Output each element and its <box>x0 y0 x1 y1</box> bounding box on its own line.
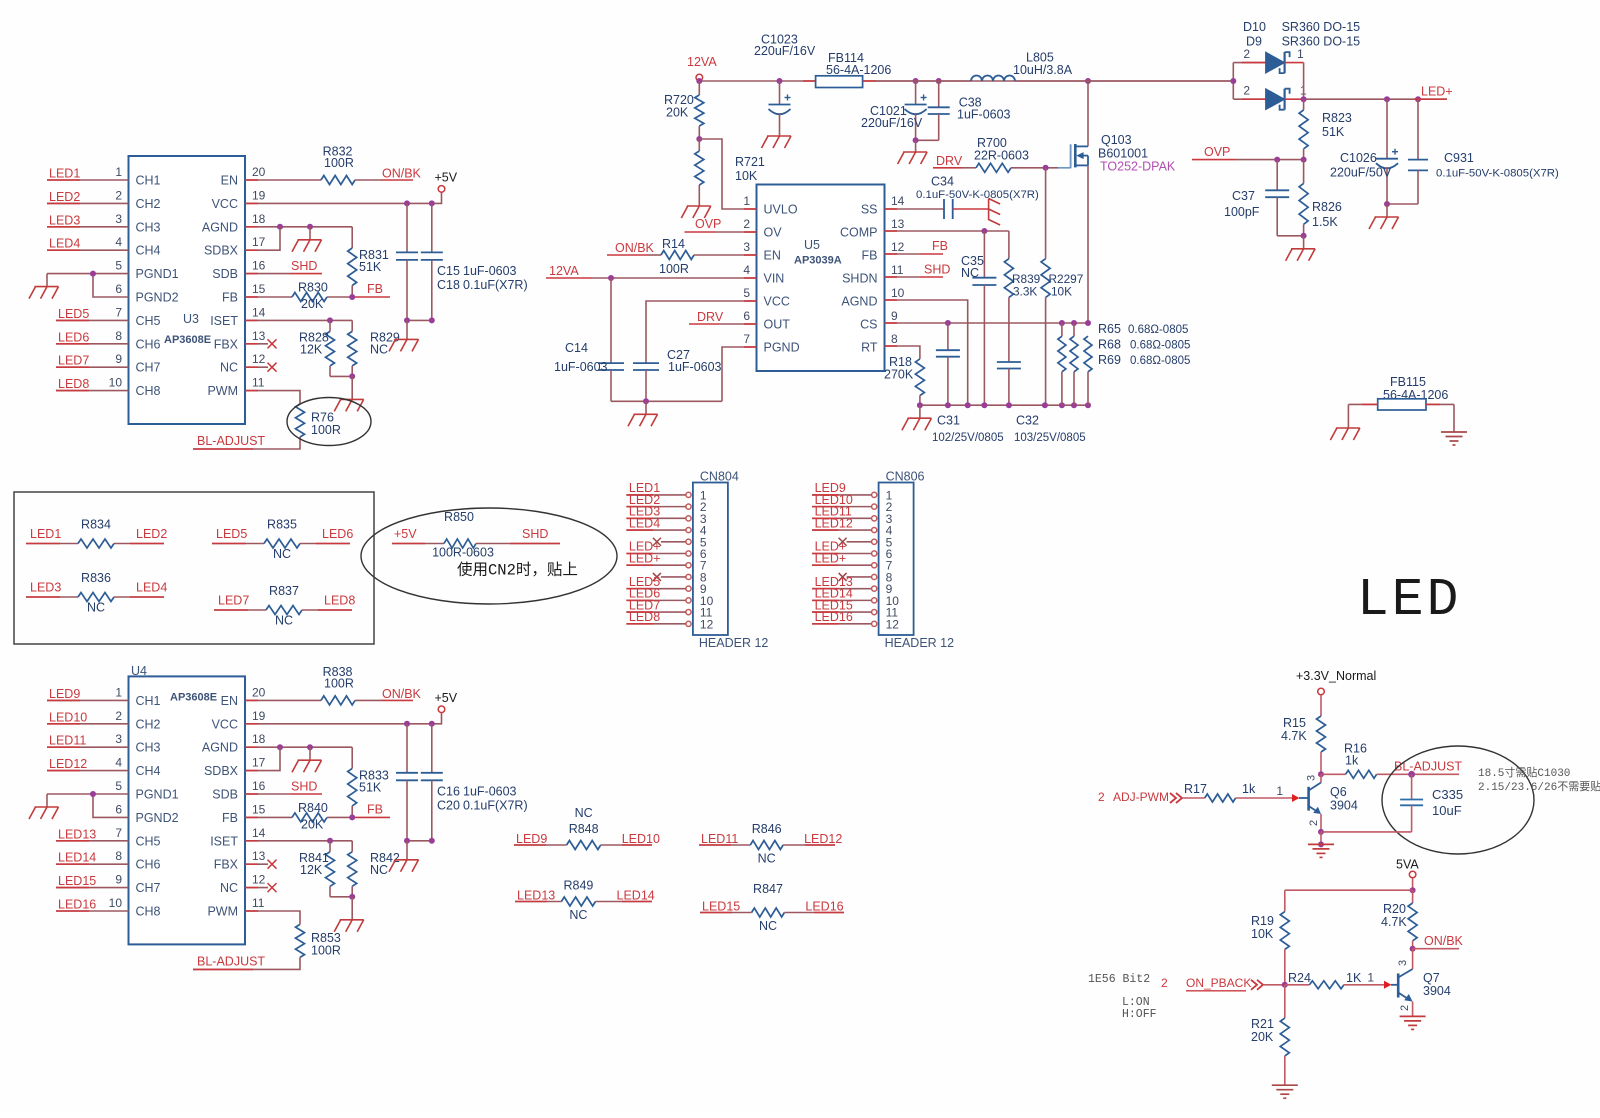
svg-text:R848: R848 <box>569 822 599 836</box>
ground under R721 <box>687 205 711 207</box>
svg-text:FBX: FBX <box>214 858 239 872</box>
svg-text:NC: NC <box>370 863 388 877</box>
wire U5 RT <box>885 346 920 359</box>
svg-text:Q7: Q7 <box>1423 971 1440 985</box>
svg-text:CN806: CN806 <box>886 470 925 484</box>
svg-text:LED14: LED14 <box>58 851 96 865</box>
svg-text:1: 1 <box>1367 971 1374 985</box>
resistor R849 LED13-LED14 NC <box>515 901 561 903</box>
svg-text:2: 2 <box>1399 1005 1411 1011</box>
wire LED12 to U4 CH4 <box>47 770 129 772</box>
svg-text:R823: R823 <box>1322 111 1352 125</box>
svg-text:LED4: LED4 <box>49 237 80 251</box>
resistor R846 LED11-LED12 NC <box>699 844 750 846</box>
svg-text:2: 2 <box>1161 976 1168 990</box>
wire divider to U5 UVLO <box>699 139 756 209</box>
ground under R841 <box>351 897 353 920</box>
CN806 pin 2 <box>872 504 877 509</box>
ground at FB115 left <box>1336 427 1360 429</box>
svg-text:VCC: VCC <box>212 197 238 211</box>
resistor R21 20K <box>1284 985 1286 1018</box>
svg-text:LED5: LED5 <box>216 527 247 541</box>
svg-text:12: 12 <box>700 617 714 631</box>
svg-text:R830: R830 <box>298 281 328 295</box>
CN804 pin 11 <box>686 610 691 615</box>
svg-text:U5: U5 <box>804 238 820 252</box>
capacitor C1021 220uF/16V <box>915 81 917 105</box>
svg-text:2.15/23.6/26不需要贴: 2.15/23.6/26不需要贴 <box>1478 779 1600 794</box>
svg-text:BL-ADJUST: BL-ADJUST <box>197 434 265 448</box>
svg-text:12VA: 12VA <box>687 55 717 69</box>
resistor R847 LED15-LED16 NC <box>700 912 752 914</box>
ground under C1021 <box>903 151 927 153</box>
svg-text:220uF/16V: 220uF/16V <box>861 116 923 130</box>
wire LED1 to U3 CH1 <box>47 179 129 181</box>
svg-text:LED13: LED13 <box>58 827 96 841</box>
svg-text:14: 14 <box>252 826 266 840</box>
svg-text:CH8: CH8 <box>136 905 161 919</box>
U4 FBX no-connect <box>245 863 268 865</box>
svg-text:NC: NC <box>569 908 587 922</box>
svg-text:AGND: AGND <box>202 741 238 755</box>
capacitor C18 <box>431 203 433 252</box>
svg-text:LED11: LED11 <box>701 832 738 846</box>
svg-text:100pF: 100pF <box>1224 205 1260 219</box>
svg-text:13: 13 <box>252 849 266 863</box>
ground under R828 <box>351 376 353 399</box>
svg-text:LED11: LED11 <box>49 734 86 748</box>
capacitor C38 1uF-0603 <box>938 81 940 107</box>
svg-text:CS: CS <box>860 318 877 332</box>
wire ON/BK to R14 <box>648 254 661 256</box>
svg-text:LED7: LED7 <box>58 354 89 368</box>
wire LED16 to U4 CH8 <box>56 910 129 912</box>
resistor R19 10K <box>1284 890 1286 911</box>
svg-text:12: 12 <box>252 352 266 366</box>
svg-text:VCC: VCC <box>764 295 790 309</box>
svg-text:CH6: CH6 <box>136 337 161 351</box>
svg-text:SDB: SDB <box>212 267 238 281</box>
wire C1021/C38 join to ground <box>916 139 939 141</box>
resistor R17 1k <box>1182 797 1205 799</box>
svg-text:R834: R834 <box>81 518 111 532</box>
wire U4 ISET <box>245 840 352 842</box>
svg-text:ON/BK: ON/BK <box>1424 934 1464 948</box>
svg-text:13: 13 <box>252 329 266 343</box>
svg-text:FB: FB <box>367 282 383 296</box>
svg-text:NC: NC <box>87 601 105 615</box>
svg-text:2: 2 <box>1243 84 1250 98</box>
svg-text:R65: R65 <box>1098 322 1121 336</box>
svg-text:LED15: LED15 <box>702 899 740 913</box>
wire U4 VCC to +5V <box>245 713 442 724</box>
resistor R69 0.68ohm <box>1084 336 1092 372</box>
svg-text:ON/BK: ON/BK <box>382 167 422 181</box>
CN804 pin 5 <box>686 539 691 544</box>
CN804 pin 3 <box>686 516 691 521</box>
svg-text:4: 4 <box>115 235 122 249</box>
svg-text:NC: NC <box>273 547 291 561</box>
capacitor C31 102/25V/0805 <box>947 323 949 350</box>
svg-text:R840: R840 <box>298 801 328 815</box>
svg-text:FB: FB <box>367 802 383 816</box>
svg-text:R17: R17 <box>1184 782 1207 796</box>
CN804 pin 10 <box>686 598 691 603</box>
svg-text:18.5寸需贴C1030: 18.5寸需贴C1030 <box>1478 765 1570 780</box>
svg-text:18: 18 <box>252 212 266 226</box>
svg-text:10: 10 <box>109 896 123 910</box>
svg-text:VIN: VIN <box>764 272 785 286</box>
wire R830 20K to FB label <box>327 296 355 298</box>
wire diode cathode bus to LED+ <box>1303 63 1305 100</box>
connector CN804 HEADER 12 <box>693 483 728 636</box>
U3 FBX no-connect <box>245 343 268 345</box>
svg-text:CH7: CH7 <box>136 881 161 895</box>
svg-text:12: 12 <box>252 873 266 887</box>
svg-text:LED8: LED8 <box>629 610 660 624</box>
wire LED15 to U4 CH7 <box>56 887 129 889</box>
resistor R16 1k <box>1321 773 1346 775</box>
net label FB at U5 <box>885 253 921 255</box>
wire U3 SDBX riser <box>245 227 280 250</box>
wire R16 to BL-ADJUST <box>1377 773 1460 775</box>
svg-text:FB: FB <box>222 291 238 305</box>
svg-text:10uH/3.8A: 10uH/3.8A <box>1013 63 1073 77</box>
svg-text:3: 3 <box>115 212 122 226</box>
svg-text:11: 11 <box>891 263 904 277</box>
svg-text:51K: 51K <box>359 780 382 794</box>
wire U5 AGND riser <box>885 300 968 405</box>
svg-text:LED+: LED+ <box>815 551 847 565</box>
resistor R68 0.68ohm <box>1073 323 1075 336</box>
U3 NC pin no-connect <box>245 366 268 368</box>
resistor R830 20K <box>292 293 327 302</box>
svg-text:AP3608E: AP3608E <box>170 692 217 704</box>
capacitor C27 1uF-0603 <box>633 362 659 364</box>
svg-text:6: 6 <box>743 309 750 323</box>
capacitor C1026 220uF/50V <box>1386 99 1388 159</box>
svg-text:LED2: LED2 <box>136 527 167 541</box>
resistor R826 1.5K <box>1303 160 1305 184</box>
wire R17 to Q6 base <box>1236 797 1292 799</box>
svg-text:C20: C20 <box>437 798 460 812</box>
svg-text:1uF-0603: 1uF-0603 <box>668 360 722 374</box>
svg-text:AGND: AGND <box>841 295 877 309</box>
wire U4 SDB to SHD label <box>245 793 290 795</box>
CN806 pin 3 <box>872 516 877 521</box>
svg-text:C1026: C1026 <box>1340 151 1377 165</box>
svg-text:CH6: CH6 <box>136 858 161 872</box>
svg-text:LED2: LED2 <box>49 190 80 204</box>
svg-text:LED16: LED16 <box>815 610 853 624</box>
wire U3 ISET <box>245 319 352 321</box>
connector CN806 HEADER 12 <box>879 483 914 636</box>
wire U5 ground bus <box>920 404 1088 406</box>
ground under R826 <box>1303 236 1305 249</box>
ground under C1026 <box>1386 204 1388 217</box>
svg-text:ON_PBACK: ON_PBACK <box>1186 976 1251 990</box>
svg-text:PGND2: PGND2 <box>136 811 179 825</box>
ground at U4 AGND <box>309 747 311 760</box>
wire 5VA node <box>1412 878 1414 890</box>
svg-text:PGND1: PGND1 <box>136 267 179 281</box>
svg-text:BL-ADJUST: BL-ADJUST <box>197 954 265 968</box>
capacitor C1023 220uF/16V <box>779 81 781 105</box>
svg-text:HEADER 12: HEADER 12 <box>699 636 769 650</box>
svg-text:LED10: LED10 <box>49 710 87 724</box>
ground under C15/C18 <box>395 338 419 340</box>
svg-text:R68: R68 <box>1098 338 1121 352</box>
svg-text:10: 10 <box>891 286 905 300</box>
svg-text:1E56 Bit2: 1E56 Bit2 <box>1088 973 1150 986</box>
highlight ellipse around R850 <box>361 508 617 604</box>
svg-text:CH5: CH5 <box>136 834 161 848</box>
svg-text:2: 2 <box>1243 47 1250 61</box>
svg-text:19: 19 <box>252 188 266 202</box>
svg-text:R721: R721 <box>735 155 765 169</box>
svg-text:2: 2 <box>115 188 122 202</box>
svg-text:FB: FB <box>222 811 238 825</box>
svg-text:7: 7 <box>115 826 122 840</box>
IC U5 AP3039A body <box>757 185 885 372</box>
wire Q103 drain to rail <box>1087 81 1089 146</box>
svg-text:NC: NC <box>220 361 238 375</box>
svg-text:CH5: CH5 <box>136 314 161 328</box>
svg-text:4.7K: 4.7K <box>1281 729 1307 743</box>
resistor R76 100R <box>296 404 305 437</box>
svg-text:15: 15 <box>252 802 266 816</box>
wire LED8 to U3 CH8 <box>56 390 129 392</box>
svg-text:C37: C37 <box>1232 189 1255 203</box>
ground under C16/C20 <box>395 859 419 861</box>
svg-text:LED13: LED13 <box>517 888 555 902</box>
wire Q6 collector riser <box>1320 774 1322 782</box>
svg-text:ISET: ISET <box>210 834 238 848</box>
svg-text:103/25V/0805: 103/25V/0805 <box>1014 432 1086 444</box>
svg-text:SHD: SHD <box>291 780 317 794</box>
wire U4 PWM <box>245 911 300 924</box>
svg-text:11: 11 <box>252 896 265 910</box>
svg-text:EN: EN <box>221 694 238 708</box>
svg-text:1uF-0603: 1uF-0603 <box>463 264 517 278</box>
svg-text:0.68Ω-0805: 0.68Ω-0805 <box>1130 355 1190 367</box>
svg-text:1: 1 <box>115 165 122 179</box>
svg-text:SHD: SHD <box>291 259 317 273</box>
svg-text:20K: 20K <box>301 297 324 311</box>
resistor R829 NC <box>351 320 353 331</box>
svg-text:3: 3 <box>1397 960 1409 966</box>
svg-text:15: 15 <box>252 282 266 296</box>
svg-text:8: 8 <box>115 849 122 863</box>
resistor R832 100R <box>321 176 355 185</box>
svg-text:7: 7 <box>115 305 122 319</box>
svg-text:1: 1 <box>743 194 750 208</box>
svg-text:DRV: DRV <box>697 310 724 324</box>
resistor R720 20K <box>698 81 700 95</box>
svg-text:LED16: LED16 <box>58 898 96 912</box>
svg-text:R836: R836 <box>81 571 111 585</box>
wire LED2 to U3 CH2 <box>47 202 129 204</box>
svg-text:+5V: +5V <box>394 527 417 541</box>
svg-text:FB: FB <box>932 239 948 253</box>
svg-text:12: 12 <box>886 617 900 631</box>
CN804 pin 8 <box>686 574 691 579</box>
CN804 pin 1 <box>686 492 691 497</box>
svg-text:16: 16 <box>252 259 266 273</box>
svg-text:CH4: CH4 <box>136 764 161 778</box>
resistor R65 0.68ohm <box>1061 323 1063 336</box>
CN804 pin 9 <box>686 586 691 591</box>
svg-text:1.5K: 1.5K <box>1312 215 1338 229</box>
svg-text:PGND: PGND <box>764 341 800 355</box>
svg-text:LED4: LED4 <box>629 516 660 530</box>
svg-text:5: 5 <box>743 286 750 300</box>
wire Q7 emitter to ground <box>1412 1002 1414 1017</box>
node Q6 collector <box>1318 771 1324 777</box>
svg-text:LED6: LED6 <box>322 527 353 541</box>
svg-text:0.1uF-50V-K-0805(X7R): 0.1uF-50V-K-0805(X7R) <box>1436 168 1559 180</box>
svg-text:C931: C931 <box>1444 151 1474 165</box>
wire LED3 to U3 CH3 <box>47 226 129 228</box>
wire LED4 to U3 CH4 <box>47 249 129 251</box>
svg-text:LED12: LED12 <box>804 832 842 846</box>
svg-text:1: 1 <box>1276 784 1283 798</box>
ground under C27 <box>645 401 647 414</box>
svg-text:OVP: OVP <box>1204 145 1230 159</box>
wire U3 FB <box>245 296 292 298</box>
IC U4 AP3608E body <box>129 676 246 944</box>
svg-text:2: 2 <box>1098 790 1105 804</box>
svg-text:C18: C18 <box>437 278 460 292</box>
CN804 pin 4 <box>686 527 691 532</box>
svg-text:AP3608E: AP3608E <box>164 334 211 346</box>
svg-text:DRV: DRV <box>936 154 963 168</box>
wire Q6 emitter <box>1320 814 1322 832</box>
wire LED11 to U4 CH3 <box>47 746 129 748</box>
svg-text:1: 1 <box>1297 47 1304 61</box>
wire ON_PBACK to node <box>1264 984 1285 986</box>
svg-text:20K: 20K <box>301 817 324 831</box>
svg-text:18: 18 <box>252 732 266 746</box>
resistor R835 LED5-LED6 <box>212 543 264 545</box>
svg-text:22R-0603: 22R-0603 <box>974 149 1029 163</box>
svg-text:LED+: LED+ <box>1421 85 1453 99</box>
wire U5 VCC riser <box>646 301 757 363</box>
resistor R15 4.7K <box>1320 695 1322 716</box>
wire U3 SDB to SHD label <box>245 273 290 275</box>
svg-text:3: 3 <box>115 732 122 746</box>
svg-text:56-4A-1206: 56-4A-1206 <box>826 63 891 77</box>
svg-text:1uF-0603: 1uF-0603 <box>957 108 1011 122</box>
svg-text:3: 3 <box>743 240 750 254</box>
transistor Q7 3904 NPN <box>1391 984 1398 986</box>
wire C1026/C931 join to ground <box>1387 203 1418 205</box>
wire cap join to ground <box>407 319 432 321</box>
svg-text:20: 20 <box>252 165 266 179</box>
net label SHD at U5 SHDN <box>885 276 921 278</box>
wire R853 to BL-ADJUST <box>193 957 300 969</box>
wire LED5 to U3 CH5 <box>56 319 129 321</box>
CN806 pin 10 <box>872 598 877 603</box>
wire rail to diodes <box>1088 80 1233 82</box>
svg-text:7: 7 <box>743 332 750 346</box>
wire OVP line <box>1236 159 1304 161</box>
CN806 pin 1 <box>872 492 877 497</box>
svg-text:PGND1: PGND1 <box>136 788 179 802</box>
svg-text:AGND: AGND <box>202 220 238 234</box>
svg-text:C16: C16 <box>437 784 460 798</box>
svg-text:100R: 100R <box>659 262 689 276</box>
svg-text:EN: EN <box>221 174 238 188</box>
svg-text:FB: FB <box>862 249 878 263</box>
svg-text:LED6: LED6 <box>58 330 89 344</box>
transistor Q6 3904 NPN <box>1299 797 1309 799</box>
svg-text:C32: C32 <box>1016 414 1039 428</box>
svg-text:LED15: LED15 <box>58 874 96 888</box>
node ON/BK <box>1410 946 1416 952</box>
CN806 pin 4 <box>872 527 877 532</box>
wire LED14 to U4 CH6 <box>56 863 129 865</box>
svg-text:SHD: SHD <box>924 263 950 277</box>
svg-text:20K: 20K <box>1251 1030 1274 1044</box>
ground at U4 PGND <box>46 794 48 807</box>
svg-text:1K: 1K <box>1346 971 1362 985</box>
svg-text:SS: SS <box>861 203 878 217</box>
resistor R721 10K <box>698 139 700 151</box>
svg-text:12K: 12K <box>300 863 323 877</box>
wire LED7 to U3 CH7 <box>56 366 129 368</box>
svg-text:UVLO: UVLO <box>764 203 798 217</box>
svg-text:10K: 10K <box>735 169 758 183</box>
net label LED+ <box>1414 98 1447 100</box>
svg-text:8: 8 <box>891 332 898 346</box>
svg-text:100R: 100R <box>311 423 341 437</box>
svg-text:OUT: OUT <box>764 318 791 332</box>
CN806 pin 12 <box>872 621 877 626</box>
wire 12VA to U5 VIN <box>592 277 757 279</box>
svg-text:R846: R846 <box>752 822 782 836</box>
wire R832 to ON/BK label <box>355 179 381 181</box>
wire R14 to U5 EN <box>694 254 757 256</box>
svg-text:R826: R826 <box>1312 200 1342 214</box>
svg-text:LED10: LED10 <box>622 832 660 846</box>
resistor R24 1K <box>1285 984 1310 986</box>
ground at C34 (rotated) <box>988 199 990 221</box>
svg-text:3904: 3904 <box>1330 799 1358 813</box>
svg-text:LED3: LED3 <box>30 581 61 595</box>
svg-text:12K: 12K <box>300 342 323 356</box>
svg-text:+5V: +5V <box>435 691 458 705</box>
resistor R840 20K <box>292 813 327 822</box>
svg-text:2: 2 <box>743 217 750 231</box>
svg-text:1k: 1k <box>1242 782 1256 796</box>
svg-text:HEADER 12: HEADER 12 <box>885 636 955 650</box>
svg-text:LED14: LED14 <box>617 888 655 902</box>
svg-text:C34: C34 <box>931 175 954 189</box>
svg-text:1uF-0603: 1uF-0603 <box>554 360 608 374</box>
svg-text:4: 4 <box>115 756 122 770</box>
capacitor C35 NC <box>983 231 985 278</box>
wire diode anode bus <box>1232 63 1234 100</box>
svg-text:8: 8 <box>115 329 122 343</box>
svg-text:SDB: SDB <box>212 788 238 802</box>
capacitor C931 0.1uF <box>1417 99 1419 159</box>
svg-text:PWM: PWM <box>207 905 238 919</box>
svg-text:16: 16 <box>252 779 266 793</box>
svg-text:0.1uF(X7R): 0.1uF(X7R) <box>463 278 528 292</box>
CN804 pin 2 <box>686 504 691 509</box>
svg-text:LED1: LED1 <box>49 167 80 181</box>
